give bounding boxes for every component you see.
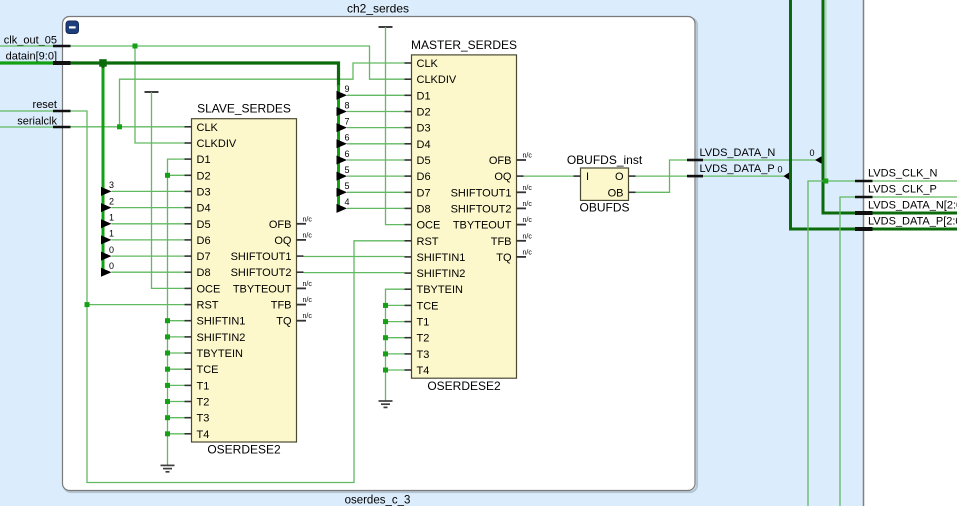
svg-text:0: 0 xyxy=(809,148,814,158)
svg-text:T2: T2 xyxy=(417,333,430,345)
svg-text:OFB: OFB xyxy=(269,219,292,231)
svg-text:8: 8 xyxy=(344,100,349,110)
node right sheet background xyxy=(864,0,957,506)
node bus tap 6 (master D4) xyxy=(337,133,405,149)
svg-text:OQ: OQ xyxy=(274,235,292,247)
node junction LVDS_CLK_N xyxy=(823,179,828,184)
svg-text:6: 6 xyxy=(344,133,349,143)
node bus tap 6 (master D5) xyxy=(337,149,405,165)
svg-text:SHIFTIN1: SHIFTIN1 xyxy=(417,252,466,264)
svg-text:D7: D7 xyxy=(197,251,211,263)
svg-text:TBYTEOUT: TBYTEOUT xyxy=(453,220,512,232)
node junction slave gnd row 16 xyxy=(165,383,170,388)
svg-text:1: 1 xyxy=(109,229,114,239)
node junction slave gnd row 18 xyxy=(165,415,170,420)
svg-text:T2: T2 xyxy=(197,397,210,409)
svg-text:OSERDESE2: OSERDESE2 xyxy=(207,443,281,457)
wire net shiftout1 xyxy=(304,256,405,258)
node junction reset/RST xyxy=(85,302,90,307)
svg-text:TQ: TQ xyxy=(496,252,512,264)
node junction slave gnd row 14 xyxy=(165,351,170,356)
svg-text:OQ: OQ xyxy=(494,171,512,183)
svg-text:D1: D1 xyxy=(197,154,211,166)
node bus tap 8 (master D2) xyxy=(337,100,405,116)
svg-text:D5: D5 xyxy=(197,219,211,231)
node collapse button xyxy=(66,21,79,34)
svg-text:n/c: n/c xyxy=(523,153,533,160)
wire net gnd (slave) xyxy=(168,159,185,465)
node junction slave gnd row 13 xyxy=(165,334,170,339)
node bus tap 0 (slave D7) xyxy=(101,245,185,261)
op-amp U2 (MASTER_SERDES) xyxy=(405,38,533,393)
svg-text:OBUFDS_inst: OBUFDS_inst xyxy=(567,153,643,167)
svg-text:4: 4 xyxy=(344,197,349,207)
node junction slave gnd row 12 xyxy=(165,318,170,323)
svg-text:7: 7 xyxy=(344,116,349,126)
wire net LVDS_DATA_N xyxy=(636,160,816,192)
svg-text:TBYTEOUT: TBYTEOUT xyxy=(233,283,292,295)
wire net shiftout2 xyxy=(304,272,405,274)
wire net master OQ to OBUFDS I xyxy=(524,175,574,177)
wire net LVDS_DATA_P xyxy=(636,175,785,177)
ground (slave) xyxy=(161,465,175,471)
svg-text:5: 5 xyxy=(344,165,349,175)
svg-text:1: 1 xyxy=(109,213,114,223)
svg-text:LVDS_DATA_N: LVDS_DATA_N xyxy=(700,147,776,159)
wire net LVDS_DATA_N[2:0] bus xyxy=(823,0,957,213)
node junction slave gnd row 19 xyxy=(165,431,170,436)
svg-text:TBYTEIN: TBYTEIN xyxy=(197,348,244,360)
wire net serialclk xyxy=(71,63,405,127)
svg-text:oserdes_c_3: oserdes_c_3 xyxy=(345,495,411,506)
svg-text:9: 9 xyxy=(344,84,349,94)
wire net LVDS_CLK_P xyxy=(840,197,957,506)
wire net LVDS_CLK_N xyxy=(808,0,957,506)
svg-text:CLK: CLK xyxy=(417,58,439,70)
node junction master gnd row 19 xyxy=(383,368,388,373)
svg-text:SHIFTOUT2: SHIFTOUT2 xyxy=(231,267,292,279)
node bus tap 9 (master D1) xyxy=(337,84,405,100)
svg-text:O: O xyxy=(615,171,624,183)
svg-text:TBYTEIN: TBYTEIN xyxy=(417,284,464,296)
svg-text:D8: D8 xyxy=(197,267,211,279)
node bus tap 5 (master D6) xyxy=(337,165,405,181)
svg-text:6: 6 xyxy=(344,149,349,159)
node port clk_out_05 xyxy=(0,35,71,47)
svg-text:SHIFTOUT2: SHIFTOUT2 xyxy=(451,203,512,215)
node bus tap 2 (slave D4) xyxy=(101,196,185,212)
node bus tap 1 (slave D5) xyxy=(101,213,185,229)
node bus tap 0 (LVDS_DATA_N) xyxy=(809,148,823,165)
node bus tap 5 (master D7) xyxy=(337,181,405,197)
svg-text:D1: D1 xyxy=(417,90,431,102)
svg-text:n/c: n/c xyxy=(523,201,533,208)
svg-text:0: 0 xyxy=(109,245,114,255)
svg-text:n/c: n/c xyxy=(303,281,313,288)
svg-text:datain[9:0]: datain[9:0] xyxy=(6,51,57,63)
svg-text:SLAVE_SERDES: SLAVE_SERDES xyxy=(197,101,291,115)
svg-text:D4: D4 xyxy=(197,203,211,215)
node port serialclk xyxy=(0,116,71,128)
node junction master gnd row 16 xyxy=(383,319,388,324)
svg-text:serialclk: serialclk xyxy=(17,116,57,128)
svg-text:TQ: TQ xyxy=(276,316,292,328)
svg-text:TFB: TFB xyxy=(271,300,292,312)
node bus tap 1 (slave D6) xyxy=(101,229,185,245)
svg-text:n/c: n/c xyxy=(523,217,533,224)
svg-text:D2: D2 xyxy=(197,170,211,182)
node junction serialclk xyxy=(117,124,122,129)
svg-text:D2: D2 xyxy=(417,107,431,119)
svg-text:n/c: n/c xyxy=(523,233,533,240)
svg-text:0: 0 xyxy=(109,261,114,271)
svg-text:n/c: n/c xyxy=(303,216,313,223)
svg-text:T4: T4 xyxy=(417,365,430,377)
node junction slave gnd row 3 xyxy=(165,173,170,178)
svg-text:I: I xyxy=(586,171,589,183)
svg-text:D6: D6 xyxy=(197,235,211,247)
wire net reset xyxy=(71,111,405,483)
svg-text:SHIFTIN2: SHIFTIN2 xyxy=(197,332,246,344)
power vcc (slave OCE) xyxy=(145,92,185,288)
power vcc (master OCE) xyxy=(379,27,405,225)
svg-text:D5: D5 xyxy=(417,155,431,167)
svg-text:OCE: OCE xyxy=(417,220,441,232)
svg-text:n/c: n/c xyxy=(303,297,313,304)
svg-text:clk_out_05: clk_out_05 xyxy=(4,35,57,47)
svg-text:D3: D3 xyxy=(417,123,431,135)
svg-text:SHIFTIN2: SHIFTIN2 xyxy=(417,268,466,280)
svg-text:TCE: TCE xyxy=(417,300,439,312)
svg-text:n/c: n/c xyxy=(303,313,313,320)
svg-text:CLKDIV: CLKDIV xyxy=(197,138,237,150)
svg-text:OB: OB xyxy=(608,187,624,199)
svg-text:D3: D3 xyxy=(197,186,211,198)
node junction slave gnd row 17 xyxy=(165,399,170,404)
node bus tap 0 (slave D8) xyxy=(101,261,185,277)
svg-text:OSERDESE2: OSERDESE2 xyxy=(427,379,501,393)
node junction slave gnd row 15 xyxy=(165,367,170,372)
svg-text:LVDS_DATA_P: LVDS_DATA_P xyxy=(700,163,775,175)
wire net gnd (master) xyxy=(386,289,405,401)
svg-text:LVDS_DATA_P[2:0]: LVDS_DATA_P[2:0] xyxy=(868,216,957,228)
svg-text:T4: T4 xyxy=(197,429,210,441)
node junction master gnd row 15 xyxy=(383,303,388,308)
svg-text:TFB: TFB xyxy=(491,236,512,248)
node junction clk_out_05 xyxy=(133,44,138,49)
svg-text:MASTER_SERDES: MASTER_SERDES xyxy=(411,38,517,52)
svg-text:CLKDIV: CLKDIV xyxy=(417,74,457,86)
node junction master gnd row 18 xyxy=(383,351,388,356)
svg-text:T1: T1 xyxy=(417,317,430,329)
svg-text:D6: D6 xyxy=(417,171,431,183)
op-amp U3 (OBUFDS_inst) xyxy=(567,153,643,215)
svg-text:T3: T3 xyxy=(417,349,430,361)
svg-text:LVDS_DATA_N[2:0]: LVDS_DATA_N[2:0] xyxy=(868,200,957,212)
svg-text:n/c: n/c xyxy=(523,249,533,256)
svg-text:T3: T3 xyxy=(197,413,210,425)
svg-text:reset: reset xyxy=(33,99,57,111)
svg-text:n/c: n/c xyxy=(303,232,313,239)
svg-text:OCE: OCE xyxy=(197,283,221,295)
svg-text:ch2_serdes: ch2_serdes xyxy=(347,2,409,16)
svg-text:LVDS_CLK_N: LVDS_CLK_N xyxy=(868,168,938,180)
node junction datain bus xyxy=(99,59,107,66)
node bus tap 0 (LVDS_DATA_P) xyxy=(777,164,790,180)
svg-text:D4: D4 xyxy=(417,139,431,151)
svg-text:SHIFTOUT1: SHIFTOUT1 xyxy=(451,187,512,199)
svg-text:2: 2 xyxy=(109,196,114,206)
svg-text:OBUFDS: OBUFDS xyxy=(579,201,629,215)
op-amp U1 (SLAVE_SERDES) xyxy=(185,101,313,456)
node sheet ch2_serdes canvas shadow xyxy=(64,18,697,492)
svg-text:D7: D7 xyxy=(417,187,431,199)
svg-text:SHIFTIN1: SHIFTIN1 xyxy=(197,316,246,328)
wire net datain[9:0] bus xyxy=(71,62,339,276)
wire net LVDS_DATA_P[2:0] bus xyxy=(791,0,957,229)
svg-text:LVDS_CLK_P: LVDS_CLK_P xyxy=(868,184,937,196)
node port datain[9:0] xyxy=(0,51,71,64)
node bus tap 4 (master D8) xyxy=(337,197,405,213)
svg-text:D8: D8 xyxy=(417,203,431,215)
svg-text:SHIFTOUT1: SHIFTOUT1 xyxy=(231,251,292,263)
ground (master) xyxy=(379,401,393,407)
svg-text:RST: RST xyxy=(197,300,219,312)
svg-text:TCE: TCE xyxy=(197,364,219,376)
node bus tap 3 (slave D3) xyxy=(101,180,185,196)
svg-text:3: 3 xyxy=(109,180,114,190)
svg-text:RST: RST xyxy=(417,236,439,248)
svg-text:0: 0 xyxy=(777,164,782,174)
wire net clk_out_05 xyxy=(71,46,405,143)
node junction master gnd row 17 xyxy=(383,335,388,340)
node port reset xyxy=(0,99,71,111)
svg-text:CLK: CLK xyxy=(197,122,219,134)
svg-text:n/c: n/c xyxy=(523,185,533,192)
svg-text:5: 5 xyxy=(344,181,349,191)
node sheet ch2_serdes canvas xyxy=(63,17,696,491)
svg-text:T1: T1 xyxy=(197,380,210,392)
svg-text:OFB: OFB xyxy=(489,155,512,167)
node bus tap 7 (master D3) xyxy=(337,116,405,132)
